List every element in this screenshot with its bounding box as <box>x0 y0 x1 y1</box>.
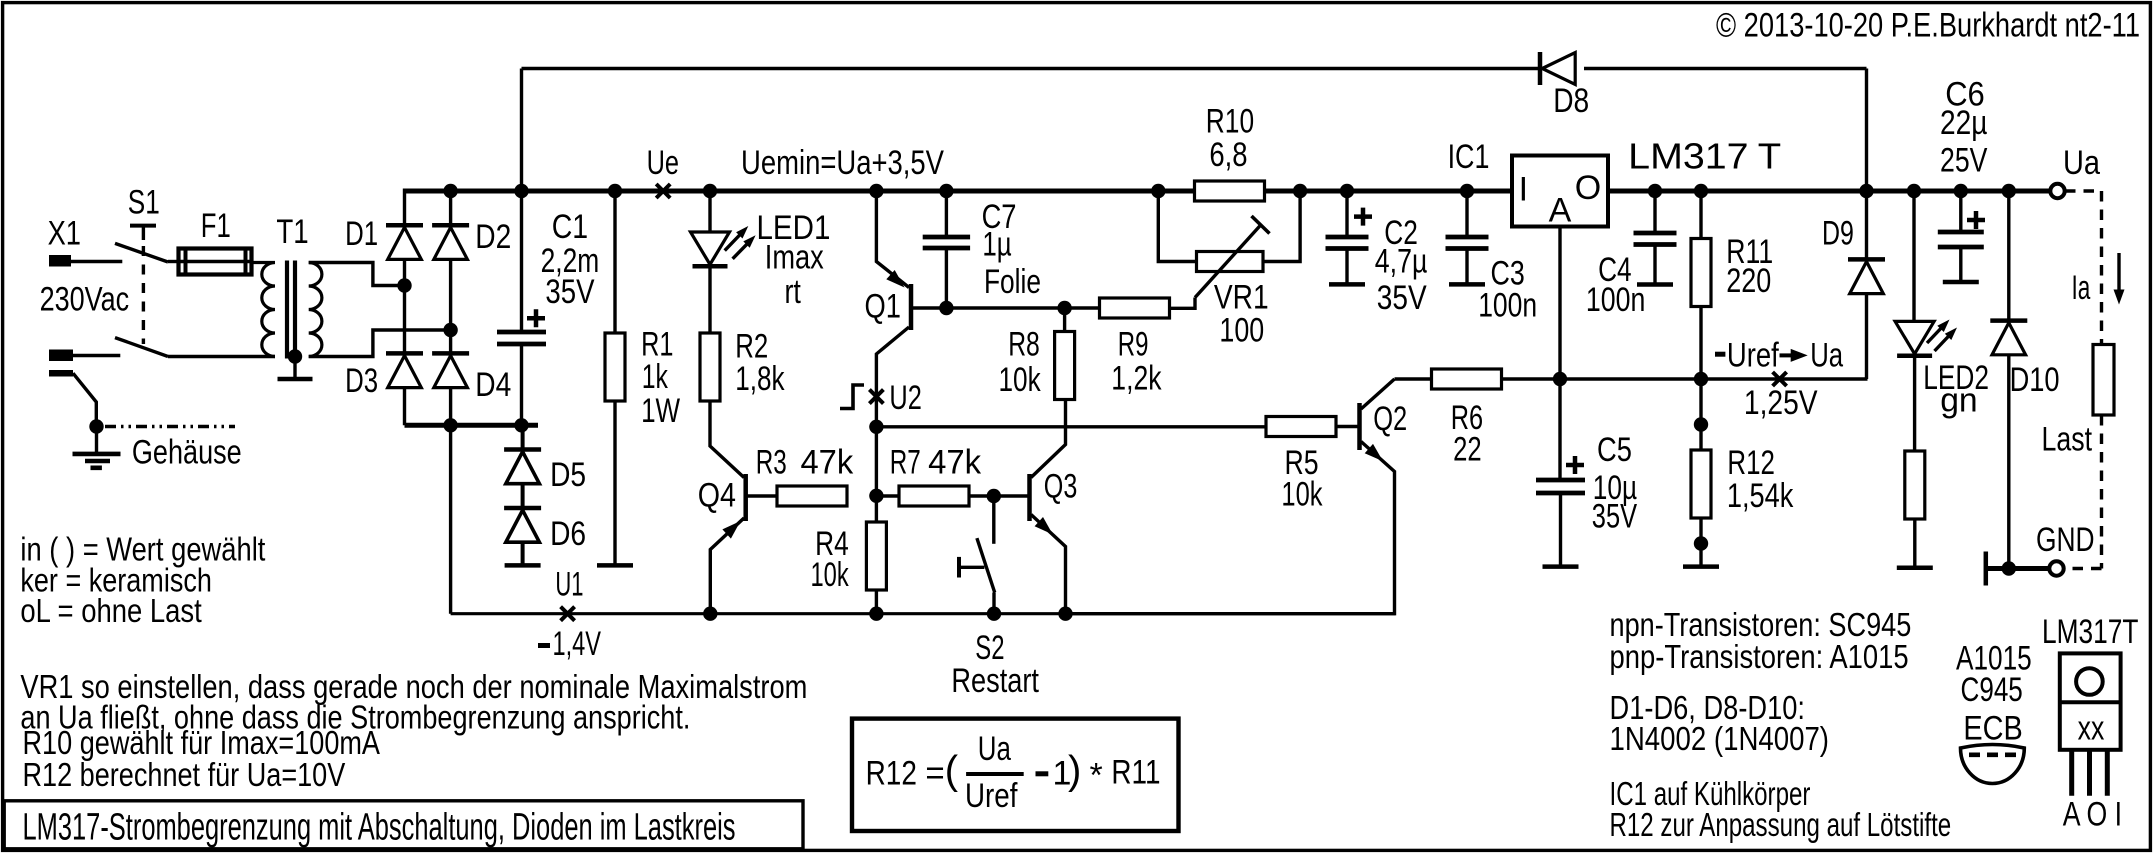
terminal bar: GND rail left end <box>1984 552 1989 586</box>
wire: C1 column top <box>520 191 523 332</box>
wire: D9 bottom to ADJ row <box>1865 293 1868 379</box>
svg-text:R3: R3 <box>756 443 787 481</box>
resistor R12 <box>1691 450 1711 518</box>
TO-220 pin O <box>2087 750 2092 796</box>
solder pin above R12 <box>1694 417 1708 431</box>
svg-text:R12 zur Anpassung auf Lötstift: R12 zur Anpassung auf Lötstifte <box>1610 806 1952 843</box>
node: D10 on bus <box>2002 184 2016 198</box>
node: R8 top / R9 <box>1057 301 1071 315</box>
svg-text:O: O <box>1575 169 1601 207</box>
svg-text:D6: D6 <box>550 515 586 553</box>
svg-text:D8: D8 <box>1553 82 1589 120</box>
svg-text:35V: 35V <box>1377 279 1427 317</box>
svg-text:Q4: Q4 <box>698 477 736 515</box>
node: R4 on 0V rail <box>869 607 883 621</box>
svg-text:D3: D3 <box>345 362 378 400</box>
svg-text:R8: R8 <box>1008 326 1040 364</box>
step waveform symbol at U2 <box>840 385 864 409</box>
LED1 light arrow 2 <box>733 240 752 259</box>
wire: LED1 top <box>708 191 711 232</box>
wire: C5 top <box>1558 379 1561 480</box>
wire: C5 bottom <box>1559 493 1562 567</box>
svg-text:LM317: LM317 <box>1628 136 1748 177</box>
svg-text:S1: S1 <box>128 184 160 222</box>
terminal: GND <box>2049 561 2063 575</box>
wire: top rail horizontal left of D8 <box>522 67 1541 70</box>
fuse F1 left end bar <box>184 250 188 273</box>
terminal X1 PE pin <box>49 370 73 377</box>
wire: C6 bottom <box>1959 247 1962 282</box>
wire: IC1 ADJ pin <box>1558 227 1561 380</box>
LED LED1 <box>691 232 730 266</box>
wire: PE lead to chassis node <box>73 373 96 426</box>
resistor R11 <box>1691 239 1711 307</box>
switch S2 blade <box>977 538 995 592</box>
formula fraction bar <box>966 772 1024 776</box>
node: C6 on bus <box>1954 184 1968 198</box>
diode D8 <box>1540 52 1575 85</box>
diode D3 <box>386 353 423 387</box>
node: C3 on bus <box>1460 184 1474 198</box>
transistor Q1 collector lead <box>876 327 909 427</box>
svg-text:Gehäuse: Gehäuse <box>132 434 242 472</box>
wire: left bridge column riser <box>403 189 406 226</box>
potentiometer VR1 body <box>1197 252 1264 272</box>
node: C1 on minus bus <box>514 418 528 432</box>
wire: ADJ row (Uref net) <box>1395 377 1868 380</box>
wire: rectifier minus bus <box>405 423 539 428</box>
svg-text:6,8: 6,8 <box>1209 136 1247 174</box>
wire: R11 bottom <box>1699 307 1702 380</box>
capacitor C5 plates <box>1536 480 1585 493</box>
node: R1 on bus <box>608 184 622 198</box>
svg-text:22µ: 22µ <box>1940 104 1987 142</box>
resistor R6 <box>1432 369 1502 389</box>
resistor R2 <box>700 333 720 401</box>
wire: D10 to GND rail <box>2007 355 2010 569</box>
capacitor C3 plates <box>1446 237 1489 249</box>
svg-text:Ue: Ue <box>647 144 679 182</box>
svg-text:): ) <box>1068 749 1081 793</box>
svg-text:U1: U1 <box>555 565 583 603</box>
node: S2 on 0V rail <box>987 607 1001 621</box>
svg-text:1N4002 (1N4007): 1N4002 (1N4007) <box>1610 720 1830 757</box>
svg-text:Q3: Q3 <box>1044 468 1078 506</box>
wire: LED2 to R13 <box>1913 357 1916 451</box>
terminal bar: shield to 0V <box>278 377 313 382</box>
transistor Q3 collector lead <box>1031 400 1066 478</box>
wire: X1 to S1 upper contact <box>71 260 122 263</box>
svg-text:1µ: 1µ <box>982 226 1011 264</box>
title box <box>4 801 803 849</box>
wire: R12 top pin <box>1699 379 1702 450</box>
regulator IC1 (LM317) box <box>1512 156 1608 227</box>
wire: node to Q3 base <box>994 494 1028 497</box>
transistor Q2 emitter arrow (NPN) <box>1365 444 1383 461</box>
svg-text:25V: 25V <box>1940 141 1988 179</box>
svg-text:ECB: ECB <box>1963 709 2022 747</box>
node: Q4 emitter on 0V rail <box>703 607 717 621</box>
wire: dashed load drop upper <box>2100 191 2103 345</box>
wire: C1 column bottom <box>520 344 523 425</box>
svg-text:1W: 1W <box>641 392 680 430</box>
svg-text:1,8k: 1,8k <box>735 360 785 398</box>
transistor Q4 base bar <box>743 474 748 521</box>
wire: R1 bottom <box>613 401 616 565</box>
wire: C3 top <box>1465 191 1468 237</box>
svg-text:D5: D5 <box>550 456 586 494</box>
svg-text:35V: 35V <box>1592 498 1638 536</box>
measuring point Uref <box>1773 372 1787 386</box>
svg-text:© 2013-10-20 P.E.Burkhardt nt2: © 2013-10-20 P.E.Burkhardt nt2-11 <box>1716 7 2140 45</box>
wire: R8/R9 node to R9 <box>1065 306 1100 309</box>
svg-text:U2: U2 <box>889 379 921 417</box>
svg-text:Ua: Ua <box>2063 144 2100 182</box>
current Ia arrowhead <box>2114 290 2125 305</box>
node: LED2 on bus <box>1907 184 1921 198</box>
node: C7/Q1 base/R8 <box>939 301 953 315</box>
transformer T1 primary winding <box>252 263 275 357</box>
wire: dashed load to GND <box>2064 567 2102 570</box>
minus sign before 1,4V <box>538 643 550 648</box>
wire: C4 bottom <box>1653 245 1656 285</box>
terminal X1 pin 2 <box>49 350 73 362</box>
svg-text:X1: X1 <box>48 215 81 253</box>
wire: Q4 base to R3 <box>747 494 777 497</box>
wire: core shield stub <box>293 357 296 378</box>
node: chassis junction <box>89 419 103 433</box>
capacitor C1 polarity <box>527 309 545 327</box>
wire: VR1 right leg <box>1263 191 1300 262</box>
LED2 arrowhead 1 <box>1937 320 1949 333</box>
wire: R4 top <box>875 496 878 522</box>
transistor Q4 emitter lead <box>710 518 744 614</box>
node: R10/VR1 right <box>1293 184 1307 198</box>
wire: S2 lower stub <box>992 593 995 614</box>
wire: D2 column <box>449 191 452 425</box>
potentiometer VR1 wiper end tick <box>1252 216 1270 234</box>
terminal bar: R1 to 0V <box>597 563 633 568</box>
wire: X1 to S1 lower contact <box>73 354 120 357</box>
svg-text:pnp-Transistoren: A1015: pnp-Transistoren: A1015 <box>1610 638 1909 675</box>
wire: R2 to Q4 collector <box>710 401 744 478</box>
svg-text:Q1: Q1 <box>865 288 901 326</box>
svg-text:D10: D10 <box>2010 361 2060 399</box>
capacitor C4 plates <box>1634 233 1677 245</box>
wire: LED2 top <box>1912 191 1915 321</box>
svg-text:R10: R10 <box>1206 102 1254 140</box>
wire: C3 bottom <box>1465 249 1468 285</box>
LED2 light arrow 2 <box>1935 332 1954 352</box>
LED LED2 <box>1895 321 1934 355</box>
wire: D9 top <box>1865 191 1868 259</box>
resistor R13 <box>1905 451 1925 519</box>
terminal bar: R12 to 0V <box>1683 564 1719 569</box>
transistor Q2 collector lead <box>1361 379 1395 409</box>
diode D9 <box>1848 259 1885 293</box>
switch S1 linkage bar <box>130 224 156 228</box>
svg-text:D2: D2 <box>475 218 511 256</box>
svg-text:220: 220 <box>1726 262 1771 300</box>
node: C2 on bus <box>1340 184 1354 198</box>
svg-text:Ua: Ua <box>1810 337 1843 375</box>
diode D2 <box>432 225 469 259</box>
wire: dashed Ua to load <box>2065 189 2102 192</box>
svg-text:10k: 10k <box>999 361 1042 399</box>
svg-text:Uref: Uref <box>1727 337 1779 375</box>
resistor R1 <box>605 333 625 401</box>
transistor Q1 emitter arrow (PNP) <box>886 270 904 288</box>
TO-220 pin A <box>2069 750 2074 796</box>
transformer T1 core bar 1 <box>285 261 289 359</box>
svg-text:IC1: IC1 <box>1448 138 1490 176</box>
transistor Q3 emitter lead <box>1031 515 1066 614</box>
ground symbol (chassis earth) <box>73 454 121 468</box>
measuring point U2 <box>869 390 883 404</box>
wire: minus bus drop to 0V rail <box>449 425 452 613</box>
GND rail (thick) <box>1986 566 2049 571</box>
svg-text:Restart: Restart <box>951 662 1039 700</box>
LED1 arrowhead 2 <box>743 235 755 248</box>
measuring point U1 <box>561 607 575 621</box>
node: C1 on bus <box>514 184 528 198</box>
svg-text:230Vac: 230Vac <box>40 281 130 319</box>
fuse F1 body <box>179 249 252 275</box>
transistor Q2 emitter lead <box>1066 442 1395 614</box>
wire: LED1 to R2 <box>708 268 711 333</box>
wire: base node to R8 top <box>946 306 1064 309</box>
terminal bar: D6 to 0V <box>505 563 541 568</box>
solder pin below R12 <box>1694 536 1708 550</box>
node: D9 on bus <box>1859 184 1873 198</box>
svg-text:gn: gn <box>1940 382 1978 420</box>
transistor Q1 base bar <box>909 284 914 330</box>
wire: R1 top <box>613 191 616 333</box>
wire: R4 bottom <box>875 590 878 614</box>
wire: R5 to Q2 base <box>1336 425 1358 428</box>
svg-text:1,54k: 1,54k <box>1727 477 1794 515</box>
terminal: Ua output <box>2050 184 2064 198</box>
resistor R3 <box>777 486 847 506</box>
TO-92 flat dashed line <box>1969 752 2017 757</box>
svg-text:10k: 10k <box>811 556 850 594</box>
capacitor C5 polarity <box>1566 456 1584 474</box>
wire: secondary bottom to bridge <box>309 330 451 357</box>
svg-text:10k: 10k <box>1281 476 1323 514</box>
node: C7 on bus <box>939 184 953 198</box>
svg-text:1,2k: 1,2k <box>1111 360 1162 398</box>
wire: S2 upper stub <box>992 496 995 544</box>
svg-text:4,7µ: 4,7µ <box>1375 243 1428 281</box>
svg-text:A: A <box>1549 191 1572 229</box>
svg-text:Q2: Q2 <box>1373 400 1407 438</box>
wire: 0V return rail (U1) <box>451 612 1395 615</box>
transformer T1 secondary winding <box>309 263 322 357</box>
svg-text:I: I <box>1519 171 1528 209</box>
terminal bar: C6 to 0V <box>1943 280 1979 285</box>
svg-text:35V: 35V <box>545 273 594 311</box>
transistor Q3 base bar <box>1027 474 1032 521</box>
formula box <box>852 719 1179 831</box>
switch S2 actuator stem <box>959 566 984 569</box>
node: core shield tap <box>288 349 302 363</box>
svg-text:Ia: Ia <box>2072 269 2091 307</box>
node: minus bus / D4 <box>443 418 457 432</box>
node: R11/R12 on ADJ row <box>1694 372 1708 386</box>
resistor R7 <box>899 486 969 506</box>
switch S1 linkage stem <box>142 226 145 240</box>
capacitor C1 plates <box>497 332 546 344</box>
node: R7/S2/Q3 base <box>987 489 1001 503</box>
svg-text:D1: D1 <box>345 215 378 253</box>
resistor R8 <box>1055 332 1075 400</box>
terminal bar: C5 to 0V <box>1543 564 1579 569</box>
svg-text:*: * <box>1090 757 1103 795</box>
svg-text:Uref: Uref <box>965 777 1018 815</box>
svg-text:Uemin=Ua+3,5V: Uemin=Ua+3,5V <box>741 144 944 182</box>
svg-text:100n: 100n <box>1586 281 1645 319</box>
node: C4 on bus <box>1648 184 1662 198</box>
resistor R5 <box>1266 417 1336 437</box>
terminal bar: C2 to 0V <box>1329 282 1365 287</box>
svg-text:47k: 47k <box>928 443 982 481</box>
terminal bar: R13 to 0V <box>1897 565 1933 570</box>
wire: R12 to 0V bar <box>1699 544 1702 567</box>
svg-text:1,25V: 1,25V <box>1744 384 1818 422</box>
wire: chassis ground stub <box>95 427 98 453</box>
transistor Q1 emitter lead <box>876 191 909 288</box>
node: R10/VR1 left <box>1151 184 1165 198</box>
wire: top rail horizontal right of D8 <box>1584 67 1867 70</box>
wire: R8 top <box>1063 308 1066 332</box>
svg-text:47k: 47k <box>801 443 855 481</box>
wire: D1 column <box>403 225 406 425</box>
arrow Uref to Ua shaft <box>1780 353 1793 357</box>
LED2 arrowhead 2 <box>1945 328 1957 341</box>
terminal bar: C4 to 0V <box>1637 282 1673 287</box>
wire: through fuse F1 <box>179 260 252 263</box>
wire: top rail right vertical <box>1865 69 1868 192</box>
diode D10 <box>1990 321 2027 355</box>
wire: C4 top <box>1653 191 1656 233</box>
node: LED1 on bus <box>703 184 717 198</box>
current Ia arrow shaft <box>2117 253 2120 291</box>
transistor Q4 emitter arrow (PNP) <box>722 521 740 539</box>
svg-text:D4: D4 <box>475 366 511 404</box>
svg-text:100: 100 <box>1219 312 1264 350</box>
wire: secondary top to bridge <box>309 263 405 286</box>
diode D6 <box>504 508 541 542</box>
wire: S1 to T1 primary <box>168 355 275 358</box>
svg-text:rt: rt <box>785 273 802 311</box>
wire: VR1 left leg <box>1158 191 1196 262</box>
node: U2 (Q1 collector) <box>869 420 883 434</box>
fuse F1 right end bar <box>244 250 248 273</box>
svg-text:xx: xx <box>2078 709 2105 747</box>
wire: U2 node down to R3/R7 node <box>875 427 878 496</box>
switch S1 upper blade <box>115 243 168 262</box>
minus sign before Uref <box>1715 352 1725 357</box>
capacitor C2 polarity <box>1354 208 1372 226</box>
svg-text:Folie: Folie <box>984 263 1041 301</box>
diode D1 <box>386 225 423 259</box>
wire: Q1 base to node <box>912 306 946 309</box>
svg-text:oL = ohne Last: oL = ohne Last <box>20 592 201 629</box>
TO-220 pin I <box>2105 750 2110 796</box>
switch S1 linkage dashed <box>142 246 145 344</box>
resistor R10 <box>1195 181 1265 201</box>
svg-text:R9: R9 <box>1118 326 1149 364</box>
load resistor (Last) <box>2093 345 2114 416</box>
wire: C7 top <box>945 191 948 237</box>
wire: C2 bottom <box>1345 249 1348 285</box>
wire: R11 top <box>1699 191 1702 239</box>
node: Q1 emitter on bus <box>869 184 883 198</box>
svg-text:1,4V: 1,4V <box>553 625 602 663</box>
wire: C7 bottom <box>945 248 948 308</box>
wire: S1 to F1 <box>168 260 179 263</box>
capacitor C7 plates <box>923 237 970 248</box>
potentiometer VR1 wiper arm <box>1195 225 1261 298</box>
wire: R12 bottom pin <box>1699 518 1702 544</box>
svg-text:T: T <box>1758 136 1781 177</box>
wire: D5/D6 column <box>521 425 525 565</box>
resistor R4 <box>866 522 886 590</box>
wire: C6 top <box>1959 191 1962 232</box>
wire: R7 to S2/Q3 node <box>969 494 994 497</box>
node: ADJ/C5 <box>1553 372 1567 386</box>
TO-220 package body <box>2060 653 2121 749</box>
svg-text:F1: F1 <box>201 207 231 245</box>
transistor Q3 emitter arrow (NPN) <box>1035 517 1053 535</box>
svg-text:LM317T: LM317T <box>2042 613 2138 651</box>
LED2 light arrow 1 <box>1927 324 1946 344</box>
wire: top rail left vertical <box>520 69 523 192</box>
wire: C2 top <box>1345 191 1348 237</box>
svg-text:A O I: A O I <box>2063 795 2122 833</box>
TO-220 mounting hole <box>2076 668 2103 695</box>
svg-text:(: ( <box>945 749 959 793</box>
svg-text:Imax: Imax <box>765 239 824 277</box>
node: secondary bottom to D2/D4 <box>443 323 457 337</box>
capacitor C6 plates <box>1938 232 1984 247</box>
wire: R13 bottom <box>1913 519 1916 568</box>
svg-text:22: 22 <box>1453 431 1482 469</box>
wire: chassis dash-dot line <box>105 425 235 428</box>
switch S1 lower blade <box>115 338 168 357</box>
terminal X1 pin 1 <box>49 255 71 267</box>
wire: D10 top <box>2007 191 2010 321</box>
wire: U2 node to R5 <box>876 425 1266 428</box>
svg-text:1k: 1k <box>642 358 669 396</box>
TO-92 package outline <box>1961 745 2025 784</box>
transformer T1 core bar 2 <box>293 261 297 359</box>
svg-text:C1: C1 <box>552 208 588 246</box>
svg-text:R11: R11 <box>1111 753 1160 791</box>
resistor R9 <box>1100 298 1170 318</box>
diode D4 <box>432 353 469 387</box>
node: R3/R7/R4 <box>869 489 883 503</box>
node: R11 on bus <box>1694 184 1708 198</box>
switch S2 actuator bar <box>957 557 961 578</box>
wire: main positive bus Ue <box>405 189 2051 194</box>
wire: R9 to VR1 wiper <box>1170 298 1195 309</box>
node: D2 top on bus <box>443 184 457 198</box>
node: D10 on GND rail <box>2002 561 2016 575</box>
LED1 light arrow 1 <box>725 231 744 251</box>
capacitor C6 polarity <box>1967 211 1985 229</box>
transistor Q2 base bar <box>1357 403 1362 450</box>
